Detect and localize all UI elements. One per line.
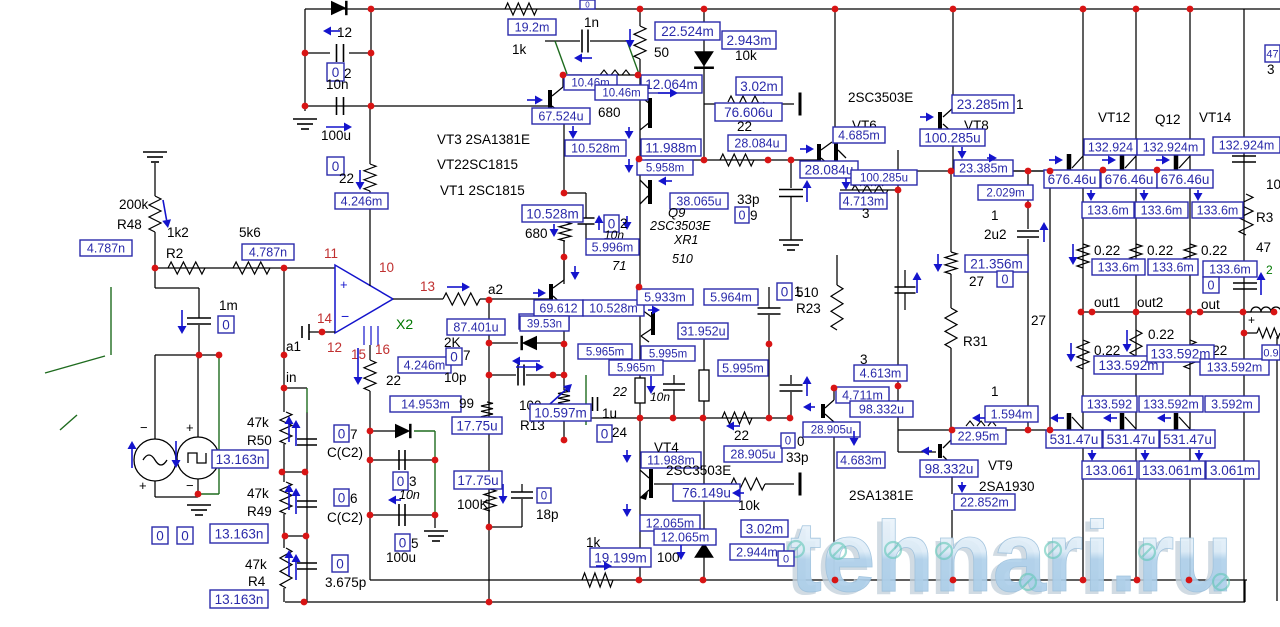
svg-text:14.953m: 14.953m <box>401 398 450 412</box>
svg-text:in: in <box>286 370 297 385</box>
svg-text:19.2m: 19.2m <box>515 21 550 35</box>
svg-text:1: 1 <box>991 208 999 223</box>
svg-text:4.613m: 4.613m <box>860 367 902 381</box>
svg-text:5.996m: 5.996m <box>592 241 634 255</box>
svg-text:133.061: 133.061 <box>1085 463 1134 478</box>
svg-text:13.163n: 13.163n <box>215 592 264 607</box>
svg-text:200k: 200k <box>119 197 149 212</box>
svg-text:1m: 1m <box>219 298 238 313</box>
svg-text:1: 1 <box>1016 97 1024 112</box>
svg-text:13.163n: 13.163n <box>215 526 264 541</box>
svg-text:47k: 47k <box>247 486 269 501</box>
svg-text:5: 5 <box>411 536 419 551</box>
svg-text:47: 47 <box>1256 240 1271 255</box>
svg-text:69.612: 69.612 <box>539 302 577 316</box>
svg-text:1.594m: 1.594m <box>991 408 1033 422</box>
svg-text:3.02m: 3.02m <box>746 521 784 536</box>
svg-text:18p: 18p <box>536 507 559 522</box>
svg-text:4.787n: 4.787n <box>87 242 125 256</box>
svg-text:2.029m: 2.029m <box>986 188 1024 200</box>
svg-text:0: 0 <box>785 436 791 448</box>
svg-text:87.401u: 87.401u <box>453 321 498 335</box>
svg-text:R23: R23 <box>796 301 821 316</box>
svg-text:0.22: 0.22 <box>1094 243 1120 258</box>
svg-text:23.385m: 23.385m <box>959 162 1008 176</box>
svg-text:510: 510 <box>672 252 693 266</box>
svg-text:5.933m: 5.933m <box>644 291 686 305</box>
svg-text:71: 71 <box>612 258 626 273</box>
svg-text:3: 3 <box>1267 62 1275 77</box>
svg-text:Q12: Q12 <box>1155 112 1181 127</box>
svg-text:5.995m: 5.995m <box>722 362 764 376</box>
svg-text:531.47u: 531.47u <box>1107 432 1156 447</box>
svg-text:10n: 10n <box>650 390 670 404</box>
svg-text:1u: 1u <box>602 406 617 421</box>
svg-text:0: 0 <box>399 535 407 550</box>
svg-text:133.061m: 133.061m <box>1142 463 1202 478</box>
svg-text:100u: 100u <box>386 550 416 565</box>
svg-text:1n: 1n <box>584 15 599 30</box>
svg-text:132.924m: 132.924m <box>1143 141 1199 155</box>
svg-text:11.988m: 11.988m <box>645 140 697 155</box>
svg-text:0: 0 <box>338 490 346 505</box>
svg-text:out2: out2 <box>1137 295 1163 310</box>
svg-text:Q9: Q9 <box>668 205 685 220</box>
svg-text:C(C2): C(C2) <box>327 510 363 525</box>
svg-text:0: 0 <box>601 426 609 441</box>
svg-text:5.965m: 5.965m <box>586 347 624 359</box>
svg-text:531.47u: 531.47u <box>1050 432 1099 447</box>
svg-text:47k: 47k <box>245 557 267 572</box>
svg-text:21.356m: 21.356m <box>970 256 1023 271</box>
svg-text:10p: 10p <box>444 370 467 385</box>
svg-text:76.149u: 76.149u <box>682 485 731 500</box>
svg-text:VT4: VT4 <box>654 440 679 455</box>
svg-text:3: 3 <box>860 352 868 367</box>
svg-text:10.597m: 10.597m <box>534 405 587 420</box>
svg-text:22.852m: 22.852m <box>960 496 1009 510</box>
svg-text:R48: R48 <box>117 217 142 232</box>
svg-text:10n: 10n <box>399 488 420 502</box>
svg-text:0: 0 <box>156 528 164 543</box>
svg-text:133.592: 133.592 <box>1087 398 1132 412</box>
svg-text:133.592m: 133.592m <box>1207 361 1263 375</box>
svg-text:VT1 2SC1815: VT1 2SC1815 <box>440 183 525 198</box>
svg-text:4.246m: 4.246m <box>341 195 383 209</box>
svg-text:10: 10 <box>1266 177 1280 192</box>
svg-text:0: 0 <box>336 556 344 571</box>
svg-text:33p: 33p <box>737 192 760 207</box>
svg-text:132.924m: 132.924m <box>1219 139 1275 153</box>
svg-text:5k6: 5k6 <box>239 225 261 240</box>
svg-text:17.75u: 17.75u <box>456 418 497 433</box>
svg-text:+: + <box>340 277 348 292</box>
svg-text:10.528m: 10.528m <box>571 142 620 156</box>
svg-text:0.22: 0.22 <box>1148 327 1174 342</box>
svg-text:531.47u: 531.47u <box>1163 432 1212 447</box>
svg-text:10k: 10k <box>735 48 757 63</box>
svg-text:4.246m: 4.246m <box>404 359 446 373</box>
svg-text:47k: 47k <box>247 415 269 430</box>
svg-text:10: 10 <box>379 260 394 275</box>
svg-text:0.22: 0.22 <box>1147 243 1173 258</box>
svg-text:5.995m: 5.995m <box>649 349 687 361</box>
svg-text:10.528m: 10.528m <box>526 206 579 221</box>
svg-text:22: 22 <box>386 373 401 388</box>
svg-text:98.332u: 98.332u <box>925 461 974 476</box>
svg-text:0: 0 <box>739 209 746 223</box>
svg-text:2.944m: 2.944m <box>736 546 778 560</box>
svg-text:1k: 1k <box>512 42 527 57</box>
svg-text:a2: a2 <box>488 282 503 297</box>
svg-text:11: 11 <box>324 246 338 261</box>
svg-text:R50: R50 <box>247 433 272 448</box>
svg-text:3.02m: 3.02m <box>740 79 778 94</box>
svg-text:33p: 33p <box>786 450 809 465</box>
svg-text:133.6m: 133.6m <box>1152 261 1194 275</box>
svg-text:2SC3503E: 2SC3503E <box>848 90 913 105</box>
svg-text:R49: R49 <box>247 504 272 519</box>
svg-text:100.285u: 100.285u <box>924 130 980 145</box>
svg-text:3: 3 <box>409 474 417 489</box>
svg-text:3: 3 <box>862 206 870 221</box>
svg-text:12: 12 <box>327 340 342 355</box>
svg-text:2u2: 2u2 <box>984 227 1007 242</box>
svg-text:5.965m: 5.965m <box>617 363 655 375</box>
svg-text:10.528m: 10.528m <box>589 302 638 316</box>
svg-text:−: − <box>341 308 349 324</box>
svg-text:0: 0 <box>1208 279 1215 293</box>
svg-text:0: 0 <box>222 317 230 332</box>
svg-text:676.46u: 676.46u <box>1105 172 1154 187</box>
svg-text:VT9: VT9 <box>988 458 1013 473</box>
svg-text:1: 1 <box>794 284 802 299</box>
svg-text:+: + <box>139 478 147 493</box>
svg-text:4.787n: 4.787n <box>249 246 287 260</box>
svg-text:2SC3503E: 2SC3503E <box>666 463 731 478</box>
svg-text:28.084u: 28.084u <box>734 137 779 151</box>
svg-text:100.285u: 100.285u <box>860 173 908 185</box>
svg-text:a1: a1 <box>286 339 301 354</box>
svg-text:2SA1930: 2SA1930 <box>979 479 1035 494</box>
svg-text:10k: 10k <box>738 498 760 513</box>
svg-text:19.199m: 19.199m <box>594 550 647 565</box>
svg-text:1k2: 1k2 <box>167 225 189 240</box>
svg-text:0.22: 0.22 <box>1201 243 1227 258</box>
svg-text:0: 0 <box>450 349 458 364</box>
svg-text:R3: R3 <box>1256 210 1273 225</box>
svg-text:98.332u: 98.332u <box>859 403 904 417</box>
svg-text:22: 22 <box>737 119 752 134</box>
svg-text:3.061m: 3.061m <box>1210 463 1255 478</box>
svg-text:2K: 2K <box>444 335 461 350</box>
svg-text:0.9: 0.9 <box>1263 347 1278 359</box>
svg-text:0: 0 <box>781 284 789 299</box>
svg-text:−: − <box>186 478 194 493</box>
svg-text:XR1: XR1 <box>673 233 698 247</box>
svg-text:2.943m: 2.943m <box>726 33 771 48</box>
svg-text:24: 24 <box>612 425 628 440</box>
svg-text:680: 680 <box>598 105 621 120</box>
svg-text:R31: R31 <box>963 334 988 349</box>
svg-text:VT22SC1815: VT22SC1815 <box>437 157 518 172</box>
svg-text:VT3 2SA1381E: VT3 2SA1381E <box>437 132 530 147</box>
svg-text:676.46u: 676.46u <box>1161 172 1210 187</box>
svg-text:100: 100 <box>657 550 680 565</box>
svg-text:676.46u: 676.46u <box>1048 172 1097 187</box>
svg-text:R2: R2 <box>166 246 183 261</box>
svg-text:133.592m: 133.592m <box>1143 398 1199 412</box>
svg-text:4.683m: 4.683m <box>840 454 882 468</box>
svg-text:27: 27 <box>969 274 984 289</box>
svg-text:0: 0 <box>585 0 590 9</box>
svg-text:133.6m: 133.6m <box>1141 204 1183 218</box>
svg-text:13.163n: 13.163n <box>216 452 265 467</box>
svg-text:6: 6 <box>350 491 358 506</box>
svg-text:0: 0 <box>338 426 346 441</box>
svg-text:C(C2): C(C2) <box>327 445 363 460</box>
svg-text:22.524m: 22.524m <box>661 24 714 39</box>
svg-text:2SC3503E: 2SC3503E <box>649 219 711 233</box>
svg-text:28.905u: 28.905u <box>811 425 853 437</box>
svg-text:1: 1 <box>991 384 999 399</box>
svg-text:100K: 100K <box>457 497 489 512</box>
svg-text:10.46m: 10.46m <box>602 88 640 100</box>
svg-text:22: 22 <box>339 171 354 186</box>
svg-text:12.065m: 12.065m <box>661 531 710 545</box>
svg-text:3.675p: 3.675p <box>325 575 366 590</box>
svg-text:+: + <box>186 420 194 435</box>
svg-text:tehnari.ru: tehnari.ru <box>790 501 1233 613</box>
svg-text:R4: R4 <box>248 574 266 589</box>
svg-text:3.592m: 3.592m <box>1211 398 1253 412</box>
svg-text:47: 47 <box>1266 48 1278 60</box>
svg-text:27: 27 <box>1031 313 1046 328</box>
svg-text:67.524u: 67.524u <box>538 110 583 124</box>
svg-text:2SA1381E: 2SA1381E <box>849 488 914 503</box>
svg-text:out1: out1 <box>1094 295 1120 310</box>
svg-text:5.958m: 5.958m <box>646 163 684 175</box>
svg-text:5.964m: 5.964m <box>710 291 752 305</box>
svg-text:133.6m: 133.6m <box>1197 204 1239 218</box>
svg-text:22: 22 <box>612 385 627 399</box>
svg-text:+: + <box>1248 313 1255 327</box>
svg-text:76.606u: 76.606u <box>724 105 773 120</box>
svg-text:22: 22 <box>734 428 749 443</box>
svg-text:23.285m: 23.285m <box>957 97 1010 112</box>
svg-text:17.75u: 17.75u <box>457 473 498 488</box>
svg-text:680: 680 <box>525 226 548 241</box>
svg-text:2: 2 <box>1266 263 1273 277</box>
svg-text:0: 0 <box>1002 273 1009 287</box>
svg-text:14: 14 <box>317 311 333 326</box>
svg-text:133.6m: 133.6m <box>1098 261 1140 275</box>
svg-text:7: 7 <box>463 348 471 363</box>
svg-text:50: 50 <box>654 45 669 60</box>
svg-text:132.924: 132.924 <box>1088 141 1133 155</box>
svg-text:10n: 10n <box>326 77 349 92</box>
svg-text:−: − <box>140 420 148 435</box>
svg-text:100u: 100u <box>321 128 351 143</box>
svg-text:28.084u: 28.084u <box>805 162 854 177</box>
svg-text:9: 9 <box>750 208 758 223</box>
svg-text:31.952u: 31.952u <box>680 325 725 339</box>
svg-text:0: 0 <box>541 491 547 503</box>
svg-text:22.95m: 22.95m <box>958 430 1000 444</box>
svg-text:99: 99 <box>459 396 474 411</box>
svg-text:out: out <box>1201 297 1220 312</box>
svg-text:16: 16 <box>375 342 390 357</box>
svg-text:0: 0 <box>181 528 189 543</box>
svg-text:13: 13 <box>420 279 435 294</box>
svg-text:X2: X2 <box>396 316 413 332</box>
svg-text:133.6m: 133.6m <box>1087 204 1129 218</box>
svg-text:12: 12 <box>337 25 352 40</box>
svg-text:0: 0 <box>397 474 405 489</box>
svg-text:4.685m: 4.685m <box>838 129 880 143</box>
svg-text:7: 7 <box>350 427 358 442</box>
svg-text:28.905u: 28.905u <box>730 448 775 462</box>
svg-text:133.6m: 133.6m <box>1209 263 1251 277</box>
svg-text:VT12: VT12 <box>1098 110 1130 125</box>
svg-text:0: 0 <box>783 553 789 565</box>
svg-text:39.53n: 39.53n <box>527 319 562 331</box>
svg-text:VT14: VT14 <box>1199 110 1232 125</box>
